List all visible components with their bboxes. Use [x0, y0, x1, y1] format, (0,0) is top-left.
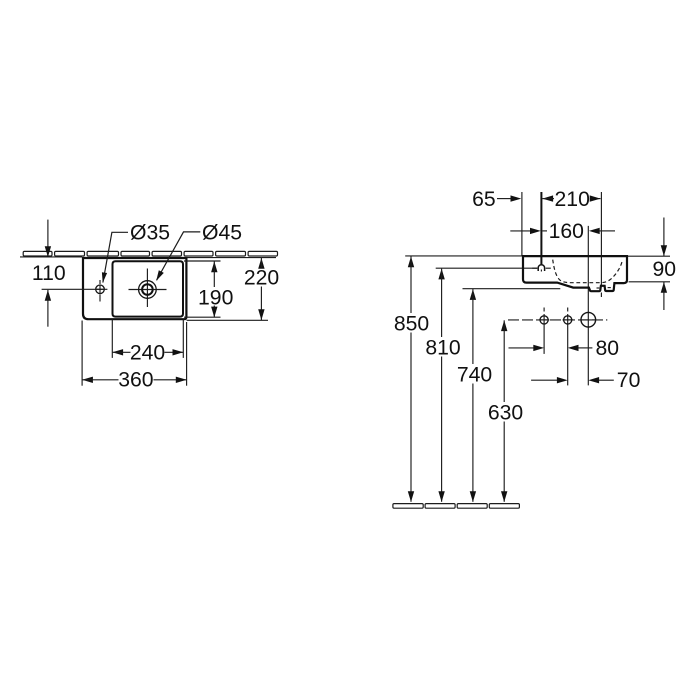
extension lines 360	[81, 321, 83, 386]
dimension 220	[258, 258, 264, 269]
dimension 70	[531, 379, 557, 381]
svg-text:110: 110	[32, 262, 66, 285]
leader Ø45	[157, 232, 201, 280]
dimension 810	[438, 269, 444, 280]
hole Ø35 centerlines	[42, 288, 108, 290]
extension line x210	[600, 192, 602, 286]
dimension 80	[509, 347, 534, 349]
hole Ø35 circle	[96, 285, 105, 294]
drain centerline	[587, 226, 589, 386]
basin interior dashed curve	[553, 260, 623, 283]
extension line top edge (850)	[405, 255, 522, 257]
dimension 360	[82, 377, 93, 383]
svg-text:740: 740	[457, 363, 492, 386]
dimension 740	[470, 289, 476, 300]
dimension 110	[47, 220, 49, 257]
mounting hole 1	[543, 308, 545, 312]
drain boss dashes	[597, 287, 600, 289]
washbasin body (elevation)	[523, 256, 627, 291]
dimension 160	[510, 230, 530, 232]
hole Ø45 centerlines	[129, 289, 167, 291]
svg-text:210: 210	[555, 188, 590, 211]
dimension 240	[112, 349, 123, 355]
extension lines 190	[184, 260, 221, 262]
leader Ø35	[103, 232, 128, 282]
svg-text:90: 90	[653, 258, 677, 281]
svg-text:Ø45: Ø45	[202, 221, 242, 244]
mounting hole 2	[567, 308, 569, 312]
dimension 850	[408, 256, 414, 267]
floor tiles	[393, 504, 519, 509]
extension lines 220	[187, 257, 276, 259]
tap hole Ø45 circles	[139, 281, 157, 299]
tap hole notch	[538, 265, 544, 271]
extension lines 240	[111, 320, 113, 358]
extension line underside (740)	[463, 288, 561, 290]
dimension 210	[542, 195, 553, 201]
tap centerline (bold)	[540, 192, 542, 264]
svg-text:220: 220	[244, 267, 279, 290]
drain hole	[580, 319, 596, 321]
wall tile row	[23, 251, 277, 256]
svg-text:240: 240	[130, 341, 165, 364]
washbasin outer outline (plan)	[83, 258, 186, 319]
svg-text:70: 70	[617, 369, 641, 392]
inner basin outline (plan)	[113, 261, 184, 316]
svg-text:360: 360	[118, 369, 153, 392]
svg-text:80: 80	[596, 337, 620, 360]
mounting hole centerline (630)	[508, 319, 607, 321]
svg-text:190: 190	[198, 286, 233, 309]
wall base line left of basin	[20, 256, 82, 258]
dimension 630	[501, 320, 507, 331]
dimension 90	[628, 255, 670, 257]
extension line tap deck (810)	[436, 267, 538, 269]
svg-text:65: 65	[472, 188, 496, 211]
extension line left edge	[521, 192, 523, 256]
svg-text:630: 630	[488, 401, 523, 424]
svg-text:Ø35: Ø35	[130, 221, 170, 244]
dimension 190	[211, 261, 217, 272]
svg-text:850: 850	[394, 312, 429, 335]
svg-text:810: 810	[425, 336, 460, 359]
svg-text:160: 160	[549, 220, 584, 243]
